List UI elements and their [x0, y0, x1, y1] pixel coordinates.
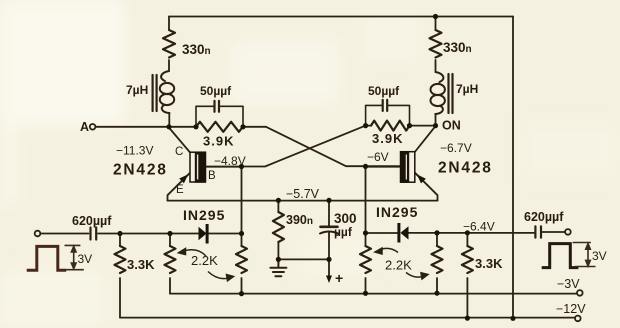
junction -3V / right 2.2K: [434, 291, 439, 296]
transistor Q1 emitter arrow: [179, 174, 188, 183]
resistor R2 3.9K left: [196, 122, 243, 132]
svg-text:3.9K: 3.9K: [372, 131, 403, 146]
terminal A input: [90, 124, 96, 130]
resistor R3 3.9K right: [371, 121, 409, 131]
svg-text:E: E: [176, 184, 184, 196]
pointer arrow 2.2K right to base resistor: [375, 248, 398, 254]
capacitor C3 300uuf plates: [321, 226, 338, 229]
wire top supply rail: [169, 16, 513, 18]
capacitor C4 620uuf left plates: [91, 228, 97, 240]
wire to + supply arrow: [328, 259, 330, 276]
svg-text:−6V: −6V: [367, 150, 389, 164]
measure 3V right: [573, 243, 596, 267]
wire 2.2K left to -3V rail: [169, 278, 171, 294]
wire 390 bottom to ground node: [277, 242, 279, 259]
junction 300uuf bottom: [326, 257, 331, 262]
terminal trigger input left: [35, 231, 41, 237]
wire collector node to 3.9K: [169, 126, 196, 128]
capacitor C2 50uuf right bracket: [366, 105, 410, 125]
junction node A / left collector: [166, 124, 171, 129]
wire left base vertical down: [241, 167, 243, 247]
wire 390 ohm drop from emitter rail: [277, 200, 279, 212]
inductor L1 7uH left coil: [161, 71, 169, 81]
transistor Q2 base lead: [366, 166, 401, 168]
svg-text:3V: 3V: [78, 252, 93, 266]
wire 3.3K left to -12V rail: [119, 278, 121, 318]
wire right coil to ON node: [435, 114, 437, 126]
resistor R4 330 ohm right: [430, 30, 442, 58]
pointer arrow 2.2K right to second resistor: [406, 273, 428, 280]
svg-text:IN295: IN295: [183, 207, 225, 223]
svg-text:ON: ON: [442, 119, 461, 133]
wire right 330 to coil: [435, 60, 437, 72]
svg-text:−12V: −12V: [556, 302, 586, 316]
resistor R9 2.2K right on base line: [360, 246, 371, 273]
capacitor C1 plates: [215, 101, 220, 112]
junction diode row / 2.2K left: [167, 231, 172, 236]
wire left 330 to coil: [168, 60, 170, 71]
transistor Q2 collector lead: [415, 126, 436, 152]
junction right RC right end: [407, 123, 412, 128]
junction -12V / supply vertical: [510, 316, 515, 321]
wire diode to left base vertical: [209, 233, 242, 235]
wire right 3.9K row: [366, 125, 371, 127]
svg-text:7µH: 7µH: [456, 82, 478, 96]
capacitor C1 50uuf left bracket: [196, 106, 243, 126]
svg-text:50µµf: 50µµf: [368, 84, 400, 98]
svg-text:620µµf: 620µµf: [524, 210, 564, 224]
svg-text:620µµf: 620µµf: [72, 214, 112, 228]
transistor Q1 base lead: [206, 166, 242, 168]
svg-text:−3V: −3V: [557, 277, 580, 291]
junction ground node: [276, 257, 281, 262]
junction right row / base vertical: [363, 230, 368, 235]
transistor Q1 emitter lead: [168, 173, 191, 201]
svg-text:−11.3V: −11.3V: [116, 144, 153, 158]
wire -12V rail: [120, 317, 575, 319]
pointer arrow 2.2K left to first resistor: [179, 249, 207, 257]
svg-text:300: 300: [334, 211, 357, 226]
svg-text:2.2K: 2.2K: [191, 253, 218, 268]
wire input to 620uuf: [40, 233, 88, 235]
svg-text:3.3K: 3.3K: [475, 256, 503, 271]
transistor Q2 emitter arrow: [417, 174, 426, 183]
junction right row / 3.3K: [465, 230, 470, 235]
wire coil to node A row: [168, 113, 170, 127]
pulse waveform input left: [27, 246, 66, 270]
svg-text:µµf: µµf: [334, 225, 353, 239]
wire 3.9K to cross-coupling diagonal: [243, 126, 266, 128]
measure 3V left: [65, 245, 84, 269]
junction -3V / right base resistor: [363, 291, 368, 296]
junction diode row / left base vertical: [239, 231, 244, 236]
junction left RC right end: [240, 124, 245, 129]
wire 620uuf to diode row: [98, 233, 199, 235]
wire 620uuf right to terminal: [543, 231, 566, 233]
junction left base node: [239, 164, 244, 169]
resistor R11 3.3K right: [466, 233, 468, 246]
junction -12V / right 3.3K: [465, 316, 470, 321]
svg-text:B: B: [208, 170, 216, 182]
resistor R7 2.2K left first: [169, 234, 171, 247]
terminal -12V: [575, 316, 581, 322]
arrowhead + supply: [326, 276, 332, 284]
transistor Q1 collector lead: [169, 128, 190, 153]
wire right 3.9K to collector node ON: [410, 125, 436, 127]
svg-text:−4.8V: −4.8V: [214, 154, 246, 168]
resistor R1 330 ohm left: [163, 30, 175, 58]
svg-text:50µµf: 50µµf: [200, 84, 232, 98]
svg-text:C: C: [175, 146, 183, 158]
wire base resistor bottom to -3V rail: [241, 278, 243, 294]
resistor R6 3.3K left drop: [119, 234, 121, 247]
svg-text:A: A: [80, 120, 89, 134]
svg-text:2N428: 2N428: [113, 162, 168, 179]
inductor L2 7uH right coil: [436, 72, 444, 82]
wire right supply vertical to -12V rail: [512, 17, 514, 319]
wire right collector branch top: [435, 17, 437, 31]
svg-text:7µH: 7µH: [126, 83, 148, 97]
junction diode row / 3.3K left: [117, 231, 122, 236]
wire right diode to 2.2K: [408, 232, 534, 234]
terminal -3V: [577, 290, 583, 296]
ground symbol: [270, 259, 286, 276]
junction node ON right collector: [433, 123, 438, 128]
transistor Q2 2N428 body: [366, 151, 426, 183]
junction right row / 2.2K: [434, 230, 439, 235]
svg-text:−5.7V: −5.7V: [286, 187, 320, 201]
pulse waveform output right: [542, 244, 579, 268]
junction -3V / left base resistor: [239, 291, 244, 296]
junction emitter rail / 300uuf: [326, 198, 331, 203]
pointer arrow 2.2K left to second resistor: [208, 272, 234, 281]
wire right base resistor to -3V rail: [365, 278, 367, 293]
resistor R8 2.2K left second on base line: [236, 246, 247, 273]
svg-text:IN295: IN295: [376, 204, 418, 220]
junction top rail / right 330: [433, 14, 438, 19]
wire 2.2K right to -3V rail: [436, 278, 438, 293]
junction emitter rail / 390: [276, 198, 281, 203]
wire right base vertical down: [365, 166, 367, 246]
svg-text:+: +: [335, 270, 343, 286]
svg-text:3.3K: 3.3K: [127, 257, 155, 272]
wire ground link: [278, 258, 329, 260]
svg-text:3V: 3V: [592, 249, 607, 263]
wire 3.3K right to -12V rail: [466, 278, 468, 318]
diode D1 1N295 left: [199, 224, 209, 244]
wire A to left collector node: [96, 126, 170, 128]
resistor R10 2.2K right second: [436, 233, 438, 246]
capacitor C5 620uuf right plates: [535, 226, 541, 237]
junction right base node: [363, 164, 368, 169]
svg-text:2N428: 2N428: [438, 160, 493, 177]
svg-text:390n: 390n: [286, 213, 313, 227]
transistor Q2 emitter lead: [415, 173, 438, 201]
capacitor C2 plates: [383, 100, 388, 111]
inductor L1 core bars: [153, 75, 157, 111]
inductor L2 core bars: [449, 74, 453, 113]
wire 300uuf drop from emitter rail: [328, 200, 330, 225]
svg-text:2.2K: 2.2K: [385, 258, 412, 273]
wire 300uuf bottom: [328, 232, 330, 259]
svg-text:−6.7V: −6.7V: [440, 141, 472, 155]
wire -3V rail: [170, 293, 577, 295]
wire left collector branch top: [168, 17, 170, 31]
wire right base vertical to diode row: [366, 232, 398, 234]
transistor Q1 2N428 body: [179, 152, 241, 184]
junction right RC left end: [363, 123, 368, 128]
diode D2 1N295 right: [397, 223, 408, 243]
wire cross-coupling diagonal right-collector to left-base: [206, 126, 366, 167]
terminal trigger input right: [565, 229, 571, 235]
svg-text:3.9K: 3.9K: [203, 134, 234, 149]
resistor R5 390 ohm: [273, 212, 284, 242]
junction left RC left end: [193, 124, 198, 129]
wire emitter rail: [168, 200, 438, 202]
svg-text:−6.4V: −6.4V: [463, 220, 495, 234]
wire cross-coupling diagonal left-collector to right-base: [266, 127, 400, 166]
